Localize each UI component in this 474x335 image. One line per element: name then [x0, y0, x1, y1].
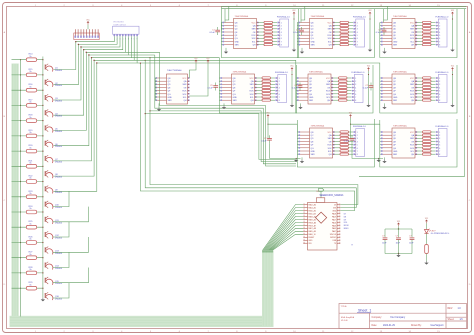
ground group 5 — [290, 104, 294, 108]
resistor R22 R22 — [26, 176, 36, 184]
svg-text:VCC: VCC — [326, 78, 331, 80]
ground group 3 — [450, 48, 454, 52]
IC U8 74HC595 — [299, 125, 335, 158]
wire base stage 6 — [12, 135, 43, 137]
power flag VCC header — [87, 21, 90, 25]
svg-text:1: 1 — [279, 78, 280, 80]
wire daisy loop U7 — [380, 65, 457, 113]
svg-text:5: 5 — [355, 91, 356, 93]
wire base stage 2 — [12, 74, 43, 76]
svg-text:6: 6 — [439, 38, 440, 40]
svg-text:SER: SER — [326, 84, 331, 86]
wire VCC rail group 9 — [350, 118, 380, 139]
IC U6 74HC595 — [297, 71, 333, 104]
svg-text:2: 2 — [439, 135, 440, 137]
wire cap gnd rail group 9 — [352, 143, 383, 159]
svg-text:EDA: EasyEDA: EDA: EasyEDA — [341, 316, 355, 319]
wire collector stage 16 — [53, 283, 69, 298]
svg-text:2: 2 — [281, 26, 282, 28]
power flag VCC U4b — [207, 60, 210, 64]
wire base stage 10 — [12, 196, 43, 198]
wire daisy loop U1 — [221, 9, 298, 58]
wire daisy loop U5 — [219, 65, 296, 113]
svg-text:2N5400: 2N5400 — [55, 101, 63, 103]
svg-text:SER: SER — [235, 45, 240, 47]
svg-text:SWDIO: SWDIO — [330, 237, 337, 239]
net labels MCU right — [344, 213, 349, 230]
title block — [339, 304, 467, 329]
svg-text:1: 1 — [439, 78, 440, 80]
svg-text:74HC595N&&: 74HC595N&& — [393, 125, 407, 127]
svg-text:8: 8 — [439, 154, 440, 156]
resistor R21 R21 — [26, 160, 36, 168]
svg-text:2N5400: 2N5400 — [55, 238, 63, 240]
svg-text:5: 5 — [439, 35, 440, 37]
svg-text:D9: D9 — [344, 219, 346, 221]
power flag VCC group 1 — [293, 12, 296, 16]
wire gnd stub U6 — [300, 103, 302, 105]
svg-text:PA07_A8: PA07_A8 — [308, 227, 315, 230]
svg-text:PA06_10: PA06_10 — [308, 233, 315, 236]
svg-text:GND: GND — [393, 151, 398, 153]
IC U3 74HC595 — [381, 16, 417, 49]
wire gnd stub U8 — [301, 157, 303, 159]
resistor R26 R26 — [26, 237, 36, 245]
svg-text:6: 6 — [357, 38, 358, 40]
wire gnd stub U2 — [301, 48, 303, 50]
wire base stage 1 — [12, 59, 43, 61]
svg-text:SER: SER — [250, 84, 255, 86]
wire base stage 4 — [12, 104, 43, 106]
svg-text:7: 7 — [439, 41, 440, 43]
svg-text:VCC: VCC — [252, 22, 257, 24]
svg-text:V6.5.46: V6.5.46 — [341, 320, 348, 322]
wire vcc U4b — [189, 63, 208, 96]
svg-text:2: 2 — [439, 81, 440, 83]
svg-text:0.1uF: 0.1uF — [293, 32, 299, 34]
svg-text:SER: SER — [393, 45, 398, 47]
ground U4 — [157, 108, 161, 112]
svg-text:SER: SER — [410, 138, 415, 140]
svg-text:6: 6 — [439, 148, 440, 150]
capacitor C1 — [215, 27, 220, 35]
IC U1 74HC595 — [223, 16, 259, 49]
wire left stubs U9 — [380, 120, 381, 154]
wire base stage 5 — [12, 120, 43, 122]
svg-text:SER: SER — [393, 154, 398, 156]
capacitor C8 — [267, 135, 272, 143]
svg-text:SER: SER — [311, 45, 316, 47]
wire vcc to header — [87, 25, 89, 30]
svg-text:1: 1 — [357, 22, 358, 24]
capacitor C7 — [369, 83, 374, 91]
svg-text:8: 8 — [355, 100, 356, 102]
svg-text:Drawn By:: Drawn By: — [411, 324, 422, 327]
svg-text:SCL: SCL — [328, 41, 332, 43]
capacitor C10 10uF — [382, 229, 387, 254]
wire base stage 14 — [12, 257, 43, 259]
svg-text:74HC595N&&: 74HC595N&& — [393, 16, 407, 18]
transistor Q15 2N5400 — [45, 277, 63, 285]
svg-text:3: 3 — [439, 138, 440, 140]
svg-text:VCC: VCC — [328, 22, 333, 24]
svg-text:D8: D8 — [344, 216, 346, 218]
svg-text:4: 4 — [439, 141, 440, 143]
wire base stage 9 — [12, 181, 43, 183]
svg-text:5: 5 — [357, 145, 358, 147]
ground group 6 — [366, 104, 370, 108]
svg-text:5: 5 — [281, 35, 282, 37]
connector FLED9 — [436, 126, 450, 157]
svg-text:3V3: 3V3 — [333, 207, 336, 209]
svg-text:GND: GND — [311, 151, 316, 153]
IC U4 74HC595 first of chain — [156, 70, 190, 104]
resistor R28 R28 — [26, 267, 36, 275]
svg-text:PA05: PA05 — [332, 227, 336, 230]
svg-text:Sheet:: Sheet: — [448, 318, 455, 321]
power flag VCC group 8 — [267, 114, 270, 118]
wire cap gnd rail group 8 — [270, 143, 301, 159]
svg-text:5: 5 — [357, 35, 358, 37]
svg-text:SER: SER — [183, 84, 188, 86]
svg-text:74HC595N&&: 74HC595N&& — [233, 71, 247, 73]
wire far right vertical joining bundle — [359, 175, 465, 177]
svg-text:SCL: SCL — [410, 97, 414, 99]
ground U8 — [300, 160, 304, 164]
svg-text:GND: GND — [393, 41, 398, 43]
wire left stubs U3 — [380, 6, 388, 44]
svg-text:PA05_A9: PA05_A9 — [308, 230, 315, 233]
resistor pack RN3 — [417, 21, 436, 45]
svg-text:2N5400: 2N5400 — [55, 116, 63, 118]
transistor Q10 2N5400 — [45, 201, 63, 209]
svg-text:8: 8 — [439, 45, 440, 47]
svg-text:0.1uF: 0.1uF — [209, 32, 215, 34]
svg-text:FLED8&&-1.0: FLED8&&-1.0 — [353, 17, 367, 19]
svg-text:VCC: VCC — [410, 22, 415, 24]
svg-text:7: 7 — [279, 97, 280, 99]
svg-text:5: 5 — [279, 91, 280, 93]
svg-text:2N5400: 2N5400 — [55, 283, 63, 285]
wire daisy loop U2 — [297, 9, 374, 58]
wire gnd stub U7 — [384, 103, 386, 105]
wire gnd stub U1 — [225, 48, 227, 50]
resistor R19 R19 — [26, 130, 36, 138]
svg-text:SCL: SCL — [328, 151, 332, 153]
svg-text:D10: D10 — [344, 222, 347, 224]
svg-text:6: 6 — [279, 94, 280, 96]
svg-text:SCL: SCL — [252, 41, 256, 43]
svg-text:QG: QG — [168, 94, 171, 96]
power flag VCC LED — [425, 220, 428, 224]
wire collector stage 14 — [53, 252, 69, 267]
svg-text:QG: QG — [311, 38, 314, 40]
connector FLED1 — [277, 17, 291, 48]
capacitor bank rails — [385, 228, 412, 254]
svg-text:FLED8&&-1.0: FLED8&&-1.0 — [275, 72, 289, 74]
svg-text:VCC: VCC — [410, 132, 415, 134]
svg-text:0.1uF: 0.1uF — [261, 141, 267, 143]
wire left stubs U6 — [296, 66, 297, 100]
svg-text:QG: QG — [235, 38, 238, 40]
resistor R25 R25 — [26, 221, 36, 229]
svg-text:2N5400: 2N5400 — [55, 161, 63, 163]
transistor Q8 2N5400 — [45, 170, 63, 178]
resistor pack RN2 — [334, 21, 353, 45]
svg-text:SCL: SCL — [183, 97, 187, 99]
IC U10 SEEEDUINO XIAO SAMD21 — [303, 191, 344, 250]
svg-text:3: 3 — [439, 84, 440, 86]
transistor Q1 2N5400 — [45, 64, 63, 72]
svg-text:7: 7 — [281, 41, 282, 43]
svg-text:1: 1 — [439, 132, 440, 134]
svg-text:4: 4 — [439, 32, 440, 34]
resistor R16 R16 — [26, 84, 36, 92]
svg-text:2: 2 — [357, 26, 358, 28]
ground U3 — [382, 50, 386, 54]
transistor Q11 2N5400 — [45, 216, 63, 224]
svg-text:8: 8 — [281, 45, 282, 47]
svg-text:1: 1 — [355, 78, 356, 80]
wire bus row3 nest feeds — [126, 52, 296, 166]
wire vcc U4a — [189, 63, 196, 78]
transistor Q13 2N5400 — [45, 247, 63, 255]
wire VCC drop group 5 — [291, 71, 292, 104]
power flag VCC group 2 — [369, 12, 372, 16]
wire collector stage 12 — [53, 222, 69, 237]
resistor pack RN7 — [417, 77, 436, 101]
svg-text:PA11_A3: PA11_A3 — [308, 212, 315, 215]
resistor pack RN6 — [333, 77, 352, 101]
svg-text:74HC595N&&: 74HC595N&& — [393, 71, 407, 73]
ground group 8 — [294, 158, 298, 162]
svg-text:PA17: PA17 — [332, 218, 336, 221]
resistor R27 R27 — [26, 252, 36, 260]
svg-text:2N5400: 2N5400 — [55, 192, 63, 194]
wire left stubs U8 — [297, 120, 298, 154]
svg-text:PA02_A0: PA02_A0 — [308, 203, 315, 206]
svg-text:2: 2 — [439, 26, 440, 28]
wire VCC top rail — [222, 5, 467, 7]
svg-text:SER: SER — [233, 100, 238, 102]
svg-text:4: 4 — [357, 32, 358, 34]
svg-text:PA16: PA16 — [332, 221, 336, 224]
power flag VCC group 5 — [291, 67, 294, 71]
svg-text:PA18: PA18 — [332, 212, 336, 215]
svg-text:2N5400: 2N5400 — [55, 207, 63, 209]
transistor Q3 2N5400 — [45, 94, 63, 102]
resistor R23 R23 — [26, 191, 36, 199]
svg-text:GND: GND — [332, 210, 337, 212]
resistor pack RN9 — [417, 131, 436, 155]
svg-text:VCC: VCC — [250, 78, 255, 80]
wire collector stage 10 — [53, 191, 69, 206]
power flag VCC group 6 — [367, 67, 370, 71]
capacitor C3 — [382, 27, 387, 35]
svg-text:PA19: PA19 — [332, 215, 336, 218]
wire VCC drop group 3 — [452, 16, 453, 49]
ground U7 — [382, 106, 386, 110]
svg-text:SCL: SCL — [410, 151, 414, 153]
wire left stubs U4 — [155, 78, 156, 100]
wire gnd stub U5 — [223, 103, 225, 105]
svg-text:Company:: Company: — [372, 317, 383, 319]
power flag VCC group 3 — [451, 12, 454, 16]
power flag VCC group 9 — [349, 114, 352, 118]
svg-text:REV:: REV: — [448, 308, 454, 310]
wire cascade left chain — [20, 60, 22, 317]
connector FLED5 — [275, 72, 289, 103]
svg-text:GND: GND — [393, 97, 398, 99]
transistor Q14 2N5400 — [45, 262, 63, 270]
resistor R14 R14 — [26, 54, 36, 62]
svg-text:3: 3 — [281, 29, 282, 31]
wire base stage 16 — [12, 287, 43, 289]
svg-text:2N5400: 2N5400 — [55, 131, 63, 133]
wire base stage 11 — [12, 211, 43, 213]
svg-text:8: 8 — [357, 154, 358, 156]
connector FLED6 — [352, 72, 366, 103]
wire VCC drop group 6 — [368, 71, 369, 104]
ground LED — [424, 261, 428, 265]
net port above MCU — [319, 188, 324, 191]
wire bus B2 verticals to MCU bundle — [140, 63, 358, 211]
svg-text:4: 4 — [439, 87, 440, 89]
ground U6 — [298, 106, 302, 110]
connector FLED8 — [353, 126, 367, 157]
capacitor C11 10uF — [396, 229, 401, 254]
svg-text:3: 3 — [357, 29, 358, 31]
resistor R15 R15 — [26, 69, 36, 77]
svg-text:QG: QG — [311, 148, 314, 150]
wire base stage 15 — [12, 272, 43, 274]
svg-text:TITLE:: TITLE: — [341, 306, 348, 308]
wire base stage 7 — [12, 150, 43, 152]
wire bundle band vertical to MCU — [262, 251, 274, 328]
svg-text:1: 1 — [357, 132, 358, 134]
svg-text:QG: QG — [393, 38, 396, 40]
capacitor C2 — [299, 27, 304, 35]
svg-text:2: 2 — [279, 81, 280, 83]
wire daisy loop U3 — [380, 9, 457, 58]
wire VCC drop group 2 — [369, 16, 370, 49]
svg-text:SWCLK: SWCLK — [330, 234, 337, 236]
svg-text:SEEEDUINO_SAMD21: SEEEDUINO_SAMD21 — [320, 194, 345, 197]
svg-text:SER: SER — [410, 29, 415, 31]
svg-text:4: 4 — [357, 141, 358, 143]
capacitor C9 — [350, 135, 355, 143]
svg-text:2N5400: 2N5400 — [55, 299, 63, 301]
svg-text:3: 3 — [439, 29, 440, 31]
svg-text:0.1uF: 0.1uF — [376, 32, 382, 34]
svg-text:5: 5 — [439, 91, 440, 93]
transistor Q7 2N5400 — [45, 155, 63, 163]
transistor Q2 2N5400 — [45, 79, 63, 87]
resistor R29 R29 — [26, 282, 36, 290]
svg-text:QG: QG — [233, 94, 236, 96]
wire bus staircase rows 7-9 to row2 ICs — [131, 58, 379, 66]
capacitor C5 — [213, 83, 218, 91]
connector header J1 pin row — [74, 29, 99, 39]
power flag VCC U4a — [195, 60, 198, 64]
svg-text:0.1uF: 0.1uF — [207, 88, 213, 90]
svg-text:QG: QG — [393, 94, 396, 96]
svg-text:MOSI: MOSI — [344, 225, 349, 227]
svg-text:SER: SER — [328, 138, 333, 140]
svg-text:GND: GND — [235, 41, 240, 43]
svg-text:2N5400: 2N5400 — [55, 70, 63, 72]
wire base stage 8 — [12, 165, 43, 167]
svg-text:Your Company: Your Company — [390, 316, 406, 319]
svg-text:PA10_A2: PA10_A2 — [308, 209, 315, 212]
ground group 9 — [377, 158, 381, 162]
svg-text:PA06: PA06 — [332, 224, 336, 227]
svg-text:74HC595N&&: 74HC595N&& — [311, 16, 325, 18]
svg-text:8: 8 — [279, 100, 280, 102]
IC U7 74HC595 — [381, 71, 417, 104]
svg-text:7: 7 — [357, 151, 358, 153]
svg-text:GND: GND — [308, 240, 313, 242]
svg-text:RESET: RESET — [308, 237, 315, 239]
wire gnd stub U4 — [158, 103, 160, 107]
svg-text:SCL: SCL — [250, 97, 254, 99]
svg-text:5: 5 — [439, 145, 440, 147]
svg-text:VCC: VCC — [410, 78, 415, 80]
svg-text:GND: GND — [168, 97, 173, 99]
svg-text:6: 6 — [357, 148, 358, 150]
svg-text:MISO: MISO — [344, 228, 349, 230]
svg-text:FLED8&&-1.0: FLED8&&-1.0 — [436, 72, 450, 74]
svg-text:7: 7 — [357, 41, 358, 43]
wire collector stage 11 — [53, 207, 89, 222]
svg-text:4: 4 — [281, 32, 282, 34]
svg-text:7: 7 — [439, 97, 440, 99]
svg-text:GND: GND — [311, 41, 316, 43]
connector P1 HXTXXXX — [113, 22, 140, 41]
svg-text:SCL: SCL — [410, 41, 414, 43]
ground caps — [396, 254, 400, 258]
wire bundle band bottom — [10, 316, 274, 327]
svg-text:3: 3 — [357, 138, 358, 140]
svg-text:2: 2 — [357, 135, 358, 137]
svg-text:2N5400: 2N5400 — [55, 177, 63, 179]
wire collector stage 15 — [53, 268, 89, 283]
svg-text:SER: SER — [328, 29, 333, 31]
svg-text:VCC: VCC — [182, 78, 187, 80]
svg-text:6: 6 — [281, 38, 282, 40]
svg-text:3: 3 — [279, 84, 280, 86]
svg-text:2: 2 — [355, 81, 356, 83]
resistor pack RN8 — [334, 131, 353, 155]
wire daisy loop U6 — [296, 65, 373, 113]
resistor R13 LED series — [425, 233, 429, 261]
svg-text:FLED8&&-1.0: FLED8&&-1.0 — [353, 126, 367, 128]
capacitor C12 10uF — [409, 229, 414, 254]
svg-text:74HC*595N&&: 74HC*595N&& — [167, 70, 182, 72]
svg-text:2N5400: 2N5400 — [55, 268, 63, 270]
svg-text:0.1uF: 0.1uF — [344, 141, 350, 143]
svg-text:Date:: Date: — [372, 324, 378, 327]
wire left stubs U2 — [297, 6, 305, 44]
svg-text:FLED8&&-1.0: FLED8&&-1.0 — [436, 17, 450, 19]
wire left stubs U7 — [380, 66, 381, 100]
svg-text:8: 8 — [357, 45, 358, 47]
IC U9 74HC595 — [381, 125, 417, 158]
svg-text:0.1uF: 0.1uF — [292, 88, 298, 90]
svg-text:6: 6 — [355, 94, 356, 96]
IC U5 74HC595 — [221, 71, 257, 104]
svg-text:2N5400: 2N5400 — [55, 146, 63, 148]
